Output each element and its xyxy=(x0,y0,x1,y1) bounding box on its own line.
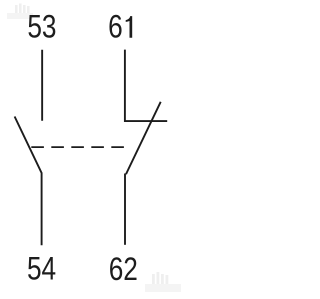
terminal label 61: digit 6 xyxy=(108,10,123,45)
terminal label 61: digit 1 (custom Arial-style glyph) xyxy=(126,16,133,38)
terminal label 53 xyxy=(27,10,56,45)
watermark bottom-right xyxy=(145,272,181,292)
wire: terminal 62 lead xyxy=(124,174,126,245)
wire: terminal 61 lead with NC seat bar xyxy=(125,50,167,122)
svg-text:53: 53 xyxy=(27,10,56,45)
NO contact moving arm (53-54) xyxy=(15,117,42,246)
svg-text:62: 62 xyxy=(109,252,138,287)
wire: terminal 53 lead xyxy=(41,50,43,121)
mechanical linkage dashed line xyxy=(31,146,124,148)
svg-text:54: 54 xyxy=(27,252,56,287)
terminal label 62 xyxy=(109,252,138,287)
watermark top-left xyxy=(7,4,33,20)
svg-text:6: 6 xyxy=(108,10,123,45)
NC contact moving arm (61-62) xyxy=(126,102,161,174)
terminal label 54 xyxy=(27,252,56,287)
